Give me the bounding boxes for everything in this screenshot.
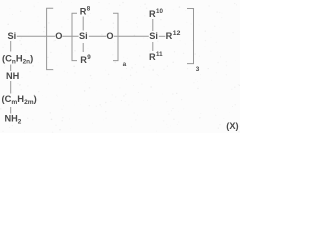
wire R10-Si3 [152, 19, 154, 31]
svg-text:R: R [80, 6, 87, 16]
svg-text:11: 11 [156, 51, 163, 58]
wire CnH2n-NH [10, 65, 12, 72]
svg-text:NH: NH [6, 71, 20, 81]
bracket inner left [72, 13, 77, 60]
wire CmH2m-NH2 [10, 107, 12, 114]
svg-text:O: O [106, 31, 113, 41]
wire O2-Si3 [114, 35, 149, 37]
svg-text:R: R [149, 9, 156, 19]
svg-text:O: O [55, 31, 62, 41]
svg-text:10: 10 [156, 8, 163, 15]
svg-text:8: 8 [87, 6, 91, 13]
wire R8-Si2 [82, 17, 84, 31]
svg-text:Si: Si [8, 31, 17, 41]
bracket outer left [47, 8, 54, 69]
wire Si2-R9 [82, 43, 84, 52]
svg-text:(X): (X) [226, 121, 238, 131]
svg-text:a: a [123, 61, 127, 68]
svg-text:R: R [80, 55, 87, 65]
svg-text:R: R [149, 52, 156, 62]
wire O1-Si2 [62, 35, 78, 37]
bracket inner right [113, 13, 118, 60]
bracket outer right [187, 9, 194, 64]
svg-text:R: R [166, 31, 173, 41]
wire Si3-R11 [152, 42, 154, 51]
wire Si3-R12 [159, 35, 166, 37]
svg-text:Si: Si [149, 31, 158, 41]
wire Si1-CnH2n [10, 41, 12, 52]
svg-text:Si: Si [79, 31, 88, 41]
svg-text:3: 3 [196, 66, 200, 73]
svg-text:9: 9 [87, 54, 91, 61]
svg-text:12: 12 [173, 30, 181, 37]
wire Si2-O2 [89, 35, 106, 37]
wire Si1-O1 [17, 35, 55, 37]
wire NH-CmH2m [10, 81, 12, 94]
